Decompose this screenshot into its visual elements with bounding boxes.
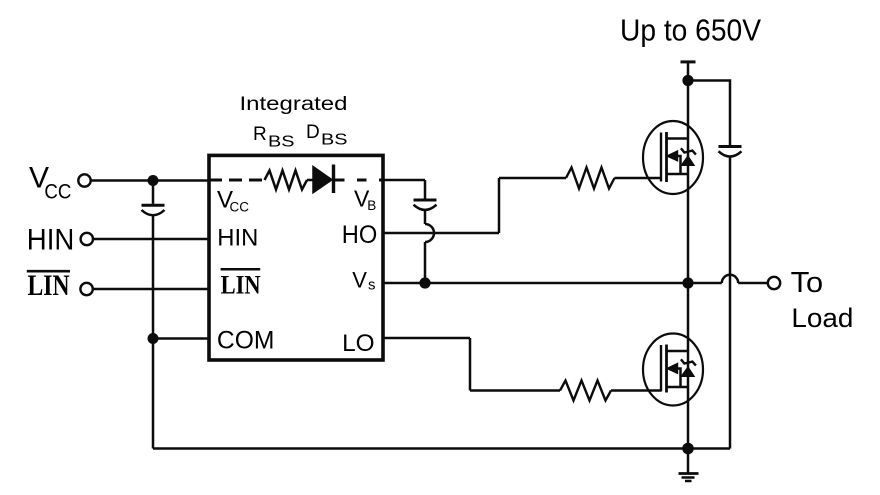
node VCC junction [148, 175, 159, 186]
terminal 650V bar [681, 60, 696, 63]
svg-text:CC: CC [230, 200, 250, 215]
node VS bus junction [682, 277, 693, 288]
op-amp U1 gate driver IC box [209, 155, 383, 360]
ground [679, 449, 699, 482]
node COM junction [148, 333, 159, 344]
svg-text:Integrated: Integrated [240, 94, 348, 115]
svg-text:COM: COM [217, 327, 275, 355]
transistor Q1 high-side MOSFET [643, 121, 703, 194]
node top rail junction [682, 75, 693, 86]
svg-text:LIN: LIN [28, 269, 70, 302]
wire VCC to IC [91, 179, 209, 182]
svg-text:s: s [368, 276, 376, 293]
wire LO out [383, 337, 470, 340]
capacitor C3 bus [719, 145, 742, 148]
node bootstrap-VS junction [419, 277, 430, 288]
wire dashed bootstrap right [335, 179, 383, 182]
svg-text:To: To [791, 267, 824, 299]
wire LO down [469, 338, 472, 391]
terminal LIN [80, 283, 92, 295]
wire COM down to bottom rail [152, 339, 155, 449]
wire VB out to bootstrap cap [383, 179, 425, 182]
wire dashed bootstrap left [209, 179, 265, 182]
wire VS to load with hop over bus cap line [688, 282, 722, 285]
wire resistor to Q2 gate [611, 389, 661, 392]
pin label VCC [217, 186, 249, 214]
svg-text:R: R [253, 124, 267, 145]
svg-text:V: V [352, 267, 367, 292]
svg-text:Up to 650V: Up to 650V [620, 13, 762, 47]
svg-text:D: D [306, 122, 320, 143]
wire LIN to IC [93, 288, 209, 291]
wire HIN to IC [93, 238, 209, 241]
transistor Q2 low-side MOSFET [643, 334, 703, 406]
wire resistor to Q1 gate [615, 177, 662, 180]
resistor R2 low-side gate [560, 381, 611, 401]
svg-text:LO: LO [342, 330, 375, 357]
svg-text:BS: BS [321, 132, 348, 149]
label RBS [253, 124, 295, 151]
diode DBS [313, 167, 332, 193]
wire bottom rail [153, 447, 730, 450]
wire hop over HO line [425, 224, 434, 242]
capacitor C1 vcc decoupling [152, 181, 155, 204]
svg-text:BS: BS [268, 134, 295, 151]
svg-text:HIN: HIN [217, 225, 258, 252]
wire resistor to diode [307, 179, 314, 182]
label DBS [306, 122, 348, 149]
wire top rail to bus capacitor [688, 81, 730, 146]
terminal To Load [768, 277, 780, 289]
pin label VB [354, 186, 376, 213]
wire HO out [383, 232, 499, 235]
pin label VS [352, 267, 375, 293]
svg-text:LIN: LIN [221, 271, 261, 300]
wire COM to IC [153, 337, 209, 340]
wire HO to gate resistor [499, 177, 566, 180]
wire HV bus vertical [687, 81, 690, 449]
svg-text:HIN: HIN [27, 223, 75, 256]
svg-text:HO: HO [342, 221, 378, 249]
resistor RBS [265, 171, 308, 190]
svg-text:CC: CC [44, 180, 71, 203]
terminal VCC [78, 174, 90, 186]
wire VS out of IC [383, 282, 688, 285]
label VCC left [29, 161, 71, 203]
terminal HIN [81, 233, 93, 245]
svg-text:B: B [367, 198, 376, 213]
wire HO up [498, 178, 501, 233]
node ground junction [682, 443, 694, 455]
resistor R1 high-side gate [566, 168, 615, 189]
svg-text:Load: Load [791, 303, 853, 333]
wire LO to gate resistor [470, 389, 560, 392]
capacitor C2 bootstrap [424, 180, 427, 199]
